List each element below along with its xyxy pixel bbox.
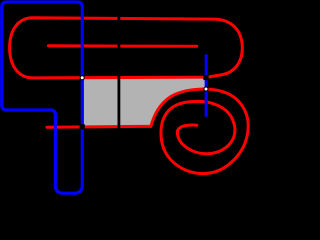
black crossing square at blue segment / red loop bottom — [203, 75, 208, 80]
white node dot left — [80, 75, 85, 80]
blue loop — [2, 2, 83, 193]
black section marker line (crosses red lines and gray region) — [118, 16, 121, 129]
white node dot right — [203, 86, 208, 91]
black crossing square at blue loop / long red line — [80, 124, 85, 129]
blue right segment — [205, 54, 208, 116]
red long line + entry arm + spiral — [47, 89, 248, 174]
gray wedge region — [82, 78, 205, 127]
red outer loop (top line, right cap, bottom line, left cap) — [10, 18, 243, 78]
red middle line — [49, 44, 197, 48]
